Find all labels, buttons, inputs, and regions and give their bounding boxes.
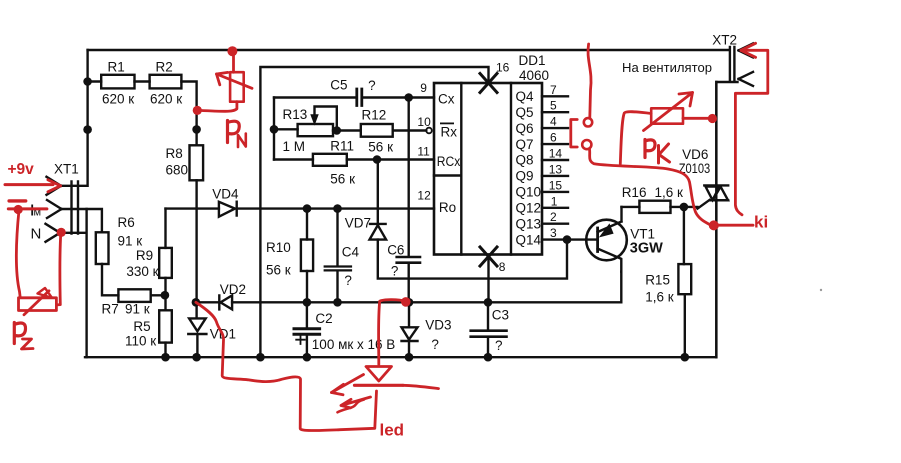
svg-text:led: led (380, 421, 405, 440)
wire PN pot bottom (202, 102, 237, 112)
wire C5 row (274, 96, 356, 98)
wire R9 top corner from Ro row (164, 209, 166, 248)
LED arrow squiggle (338, 400, 365, 413)
svg-text:C4: C4 (342, 245, 360, 260)
wire C4 column top (336, 209, 338, 266)
pin 2 stub Q13 (542, 222, 568, 224)
svg-text:13: 13 (549, 162, 563, 176)
label PN letter P (228, 121, 240, 143)
pin 13 stub Q9 (542, 175, 568, 177)
svg-text:7: 7 (550, 83, 557, 97)
svg-text:R5: R5 (133, 319, 150, 334)
DD1 right label column divider (510, 83, 512, 255)
label P2 letter P (14, 323, 25, 344)
svg-text:Q14: Q14 (516, 232, 542, 247)
wire R5 to ground rail (164, 343, 166, 358)
node R5 ground junction (161, 353, 170, 362)
svg-text:RCx: RCx (437, 154, 461, 169)
red +9v arrowhead (48, 180, 61, 192)
LED light arrow 2 shaft (341, 397, 371, 408)
svg-text:3: 3 (550, 226, 557, 240)
svg-text:Q8: Q8 (516, 153, 534, 168)
svg-text:1: 1 (551, 194, 558, 208)
svg-text:На вентилятор: На вентилятор (622, 61, 712, 75)
wire R15 column (683, 207, 685, 264)
wire R11 to DD1 pin 11 (347, 158, 434, 160)
wire triac cathode to ground rail (715, 200, 717, 357)
pin 6 stub Q7 (542, 143, 568, 145)
svg-text:91 к: 91 к (125, 301, 150, 316)
wire left frame lower from XT1 pin N (60, 209, 87, 357)
wire red led loop from VD2 node (196, 302, 377, 430)
red XT2 upper pin arrowhead (741, 43, 756, 57)
connector XT2 body (730, 47, 735, 81)
LED symbol bar (355, 384, 404, 387)
pin 14 stub Q8 (542, 159, 568, 161)
svg-text:R16: R16 (622, 185, 647, 200)
capacitor C3 (471, 331, 507, 337)
node C3 ground junction (484, 353, 493, 362)
LED light arrow 1 head (332, 384, 344, 395)
wire R11 left (274, 158, 313, 160)
wire left frame upper (61, 50, 88, 186)
svg-text:10: 10 (417, 115, 431, 129)
VT1 collector diagonal (598, 249, 622, 272)
node R10-C2 junction (303, 298, 312, 307)
svg-text:R11: R11 (330, 139, 354, 154)
node pin8-C3 junction (484, 298, 493, 307)
PN adjust arrowhead (217, 72, 228, 84)
svg-text:+9v: +9v (8, 161, 35, 178)
svg-text:Rx: Rx (441, 124, 458, 139)
node pin9 C5-C6 junction (404, 93, 413, 102)
pin 1 stub Q12 (542, 207, 568, 209)
svg-text:14: 14 (549, 147, 563, 161)
svg-text:330 к: 330 к (126, 264, 158, 279)
svg-text:R6: R6 (118, 215, 135, 230)
wire R13 left (274, 128, 298, 130)
resistor R12 (361, 124, 393, 137)
node red dot PN to R8 column (193, 106, 202, 115)
svg-text:R12: R12 (362, 108, 387, 123)
wire R12 to pin 10 bubble (393, 129, 427, 131)
resistor R6 (96, 232, 109, 264)
diode VD2 (219, 295, 232, 309)
wire VD2 node left (196, 301, 219, 303)
wire C6 column from pin 9 node (408, 98, 410, 257)
svg-text:R1: R1 (108, 60, 125, 75)
wire frame of timing section to pin 16 (260, 67, 488, 357)
switch lower contact (582, 140, 591, 149)
Rx overline (440, 122, 454, 124)
svg-text:Cx: Cx (438, 92, 455, 107)
R13 wiper arrowhead (311, 115, 318, 124)
node R7-R9-R5 junction (161, 291, 170, 300)
resistor R11 (313, 154, 347, 166)
XT1 pin 2 arrow (47, 200, 62, 218)
wire Q14 pin 3 to VT1 base (542, 238, 598, 240)
potentiometer R13 (298, 124, 333, 136)
wire C3 bottom (487, 338, 489, 358)
svg-text:Q9: Q9 (516, 169, 534, 184)
svg-text:C3: C3 (492, 308, 509, 323)
resistor R15 (678, 264, 691, 294)
node R10 top junction (303, 204, 312, 213)
svg-text:?: ? (495, 338, 503, 353)
svg-text:R7: R7 (102, 301, 119, 316)
wire VD7 column top (377, 160, 379, 224)
capacitor C2 polarized (294, 329, 320, 335)
wire R16 right to triac gate (671, 200, 710, 209)
wire oscillator loop left (273, 98, 275, 160)
node red blob at VD3 junction (401, 297, 411, 307)
node red dot minus wire (14, 205, 23, 214)
svg-text:91 к: 91 к (118, 233, 143, 248)
wire red P2 left lead (16, 210, 20, 298)
svg-text:11: 11 (417, 145, 430, 159)
wire red led drop from VD3 node (379, 300, 407, 365)
wire R10 bottom (306, 271, 308, 302)
wire red switch drop from rail (588, 44, 591, 118)
resistor R5 (159, 310, 172, 342)
svg-text:VD4: VD4 (212, 186, 239, 201)
svg-text:16: 16 (496, 61, 510, 75)
potentiometer PK body (651, 108, 683, 123)
PK adjust arrowhead (679, 93, 693, 107)
svg-text:15: 15 (549, 178, 563, 192)
svg-text:8: 8 (499, 260, 506, 274)
wire R8 bottom to VD2 node (195, 180, 197, 302)
wire pin 8 to ground row (487, 255, 489, 303)
svg-text:56 к: 56 к (266, 262, 291, 277)
wire R15 bottom (684, 294, 686, 357)
svg-text:6: 6 (550, 131, 557, 145)
wire LED bar extension (403, 385, 439, 388)
svg-text:2: 2 (550, 210, 557, 224)
VT1 emitter diagonal (598, 207, 622, 232)
svg-text:5: 5 (550, 99, 557, 113)
node R8 column dot (192, 125, 201, 134)
switch upper contact (584, 118, 592, 126)
svg-text:VT1: VT1 (630, 226, 655, 241)
pin 8 X mark (480, 247, 497, 266)
P2 diagonal stroke (24, 291, 49, 315)
pin 7 stub Q4 (542, 95, 568, 97)
wire R9 to R5 (164, 278, 166, 310)
node R1 left junction (83, 77, 92, 86)
node VD1 ground junction (192, 353, 201, 362)
resistor R9 (159, 248, 172, 278)
resistor R16 (639, 201, 670, 213)
node C4 bottom junction (333, 298, 342, 307)
node red dot on +9v rail (227, 46, 237, 56)
triac VD6 (704, 185, 728, 200)
resistor R7 (118, 289, 150, 302)
svg-text:1,6 к: 1,6 к (645, 290, 674, 305)
node VD2-VD1-R8 junction (192, 298, 201, 307)
wire R7 right to node (151, 294, 165, 296)
node red dot PK to triac anode (708, 114, 717, 123)
svg-text:3GW: 3GW (630, 240, 663, 256)
svg-text:C5: C5 (330, 78, 347, 93)
pin 15 stub Q10 (542, 191, 568, 193)
svg-text:110 к: 110 к (125, 333, 156, 348)
diode VD1 (188, 302, 206, 357)
svg-text:Q13: Q13 (516, 216, 542, 231)
svg-text:R15: R15 (645, 272, 670, 287)
XT1 pin 3 arrow (46, 224, 61, 242)
wire triac anode column (715, 82, 717, 185)
label PK letter P (645, 140, 655, 158)
R13 wiper arrow (315, 107, 337, 131)
svg-text:XT1: XT1 (54, 162, 79, 177)
wire R1 to R2 (135, 80, 150, 82)
resistor R8 (190, 145, 204, 180)
svg-text:620 к: 620 к (150, 92, 182, 107)
svg-text:Q4: Q4 (516, 89, 535, 104)
XT2 pin lower arrow (739, 72, 754, 86)
wire VT1 emitter to R16 (622, 206, 640, 208)
svg-text:N: N (31, 225, 42, 242)
wire red +9v input (5, 183, 53, 186)
node R11-VD7 junction (373, 155, 382, 164)
node left frame dot (83, 125, 92, 134)
diode VD3 (402, 302, 418, 357)
svg-text:R9: R9 (136, 248, 153, 263)
node red dot ki triac cathode (709, 220, 719, 230)
svg-text:?: ? (431, 337, 439, 352)
node frame ground junction (256, 353, 265, 362)
diode VD7 (370, 224, 387, 240)
LED symbol triangle (366, 367, 392, 382)
transistor VT1 body circle (586, 220, 627, 261)
wire PK right lead (683, 117, 709, 120)
wire red PN pot top stem (232, 52, 235, 72)
svg-text:VD3: VD3 (425, 318, 451, 333)
wire C5 to DD1 pin 9 (363, 96, 434, 98)
wire C3 top (487, 302, 489, 329)
svg-text:?: ? (344, 273, 352, 288)
wire PK left lead (620, 112, 651, 164)
XT2 pin upper arrow (739, 43, 754, 57)
wire red P2 right lead (57, 233, 61, 305)
label PN letter N (238, 134, 246, 148)
svg-text:9: 9 (420, 81, 427, 95)
C2 plus sign (296, 335, 305, 344)
svg-text:R10: R10 (266, 240, 291, 255)
wire VD2 row to VT1 collector (232, 272, 621, 303)
capacitor C4 (325, 267, 351, 271)
wire C6 bottom (408, 264, 410, 303)
svg-text:Q7: Q7 (516, 137, 534, 152)
wire R2 to R8 column (181, 82, 196, 146)
svg-text:1,6 к: 1,6 к (655, 185, 684, 200)
svg-text:?: ? (391, 264, 399, 279)
svg-text:C2: C2 (315, 311, 332, 326)
label PK letter K (659, 144, 670, 163)
svg-text:R8: R8 (166, 146, 183, 161)
wire red XT2 loop to ki (735, 50, 767, 215)
svg-text:56 к: 56 к (330, 172, 355, 187)
svg-text:4: 4 (550, 115, 557, 129)
wire top +9v rail (88, 49, 729, 51)
wire red minus input (8, 207, 47, 210)
svg-text:?: ? (368, 78, 376, 93)
connector XT1 body (72, 182, 79, 234)
svg-text:56 к: 56 к (368, 139, 393, 154)
svg-text:680: 680 (166, 163, 189, 178)
potentiometer PN body (230, 72, 244, 102)
XT1 pin 1 arrow (47, 177, 62, 195)
wire R6 to R7 (102, 264, 118, 295)
node C6-VD3 junction (405, 298, 414, 307)
node R16-R15 junction (680, 203, 689, 212)
label m pin tick (31, 205, 33, 216)
node C4 top junction (333, 204, 342, 213)
resistor R1 (101, 75, 134, 89)
svg-text:Q12: Q12 (516, 201, 542, 216)
svg-text:XT2: XT2 (712, 32, 737, 47)
wire red ki lead (719, 224, 754, 227)
svg-text:620 к: 620 к (102, 91, 134, 106)
switch button bracket (571, 120, 577, 148)
svg-text:Q10: Q10 (516, 185, 542, 200)
PN adjust arrow shaft (217, 74, 253, 88)
svg-text:100 мк x 16 В: 100 мк x 16 В (312, 337, 396, 352)
node red dot XT1 pin N (57, 228, 66, 237)
label P2 letter 2 (22, 339, 34, 349)
wire R1 left (88, 80, 102, 82)
svg-text:R13: R13 (283, 107, 308, 122)
wire C2 top (306, 302, 308, 327)
svg-text:VD6: VD6 (682, 147, 708, 162)
wire VD4 to DD1 pin 12 (237, 207, 434, 209)
thermistor P2 body (19, 298, 57, 311)
VT1 emitter arrowhead (600, 225, 613, 237)
wire XT1 pin2 to R6 (62, 209, 102, 232)
node VD3 ground junction (405, 353, 414, 362)
svg-text:VD2: VD2 (220, 282, 246, 297)
red minus sign (9, 199, 26, 202)
pin 4 stub Q6 (542, 127, 568, 129)
P2 arrow flag (38, 288, 53, 298)
pin 5 stub Q5 (542, 111, 568, 113)
PK adjust arrow shaft (644, 93, 693, 131)
wire Ro row left part (166, 207, 219, 209)
VT1 base bar (596, 228, 599, 252)
pin 16 X mark (480, 74, 497, 93)
artifact dot (820, 289, 822, 291)
svg-text:4060: 4060 (519, 68, 549, 83)
wire C4 bottom (336, 271, 338, 302)
wire C2 bottom (306, 336, 308, 358)
wire bottom ground rail (85, 356, 716, 358)
svg-text:ki: ki (754, 213, 768, 232)
DD1 internal divider RCx/Ro (434, 174, 461, 176)
capacitor C6 (397, 257, 420, 263)
node C2 ground junction (303, 353, 312, 362)
svg-text:VD7: VD7 (345, 215, 371, 230)
IC DD1 4060 outline (434, 83, 542, 255)
capacitor C5 (357, 89, 362, 106)
svg-text:Ro: Ro (439, 200, 456, 215)
wire R10 top (306, 209, 308, 240)
svg-text:1 М: 1 М (283, 139, 306, 154)
node Q14-base junction (563, 235, 572, 244)
svg-text:DD1: DD1 (519, 53, 546, 68)
svg-text:Q6: Q6 (516, 121, 534, 136)
wire R13 right to R12 (333, 129, 361, 131)
node R15 ground junction (681, 353, 690, 362)
wire switch to triac cathode curve (590, 149, 712, 225)
pin 10 inverter bubble (426, 128, 432, 134)
wire right frame to XT2 lower pin (716, 82, 737, 357)
svg-text:12: 12 (417, 189, 431, 203)
node R13 wiper to R12 (333, 126, 342, 135)
DD1 left label column divider (460, 83, 462, 255)
LED light arrow 1 shaft (332, 375, 364, 393)
node oscillator loop R13 tap (270, 125, 279, 134)
svg-text:C6: C6 (387, 242, 404, 257)
wire VD7 anode to VT1 base row (378, 240, 567, 279)
resistor R10 (301, 240, 313, 272)
svg-text:R2: R2 (156, 60, 173, 75)
svg-text:Q5: Q5 (516, 105, 534, 120)
diode VD4 (219, 202, 237, 217)
resistor R2 (150, 75, 182, 89)
